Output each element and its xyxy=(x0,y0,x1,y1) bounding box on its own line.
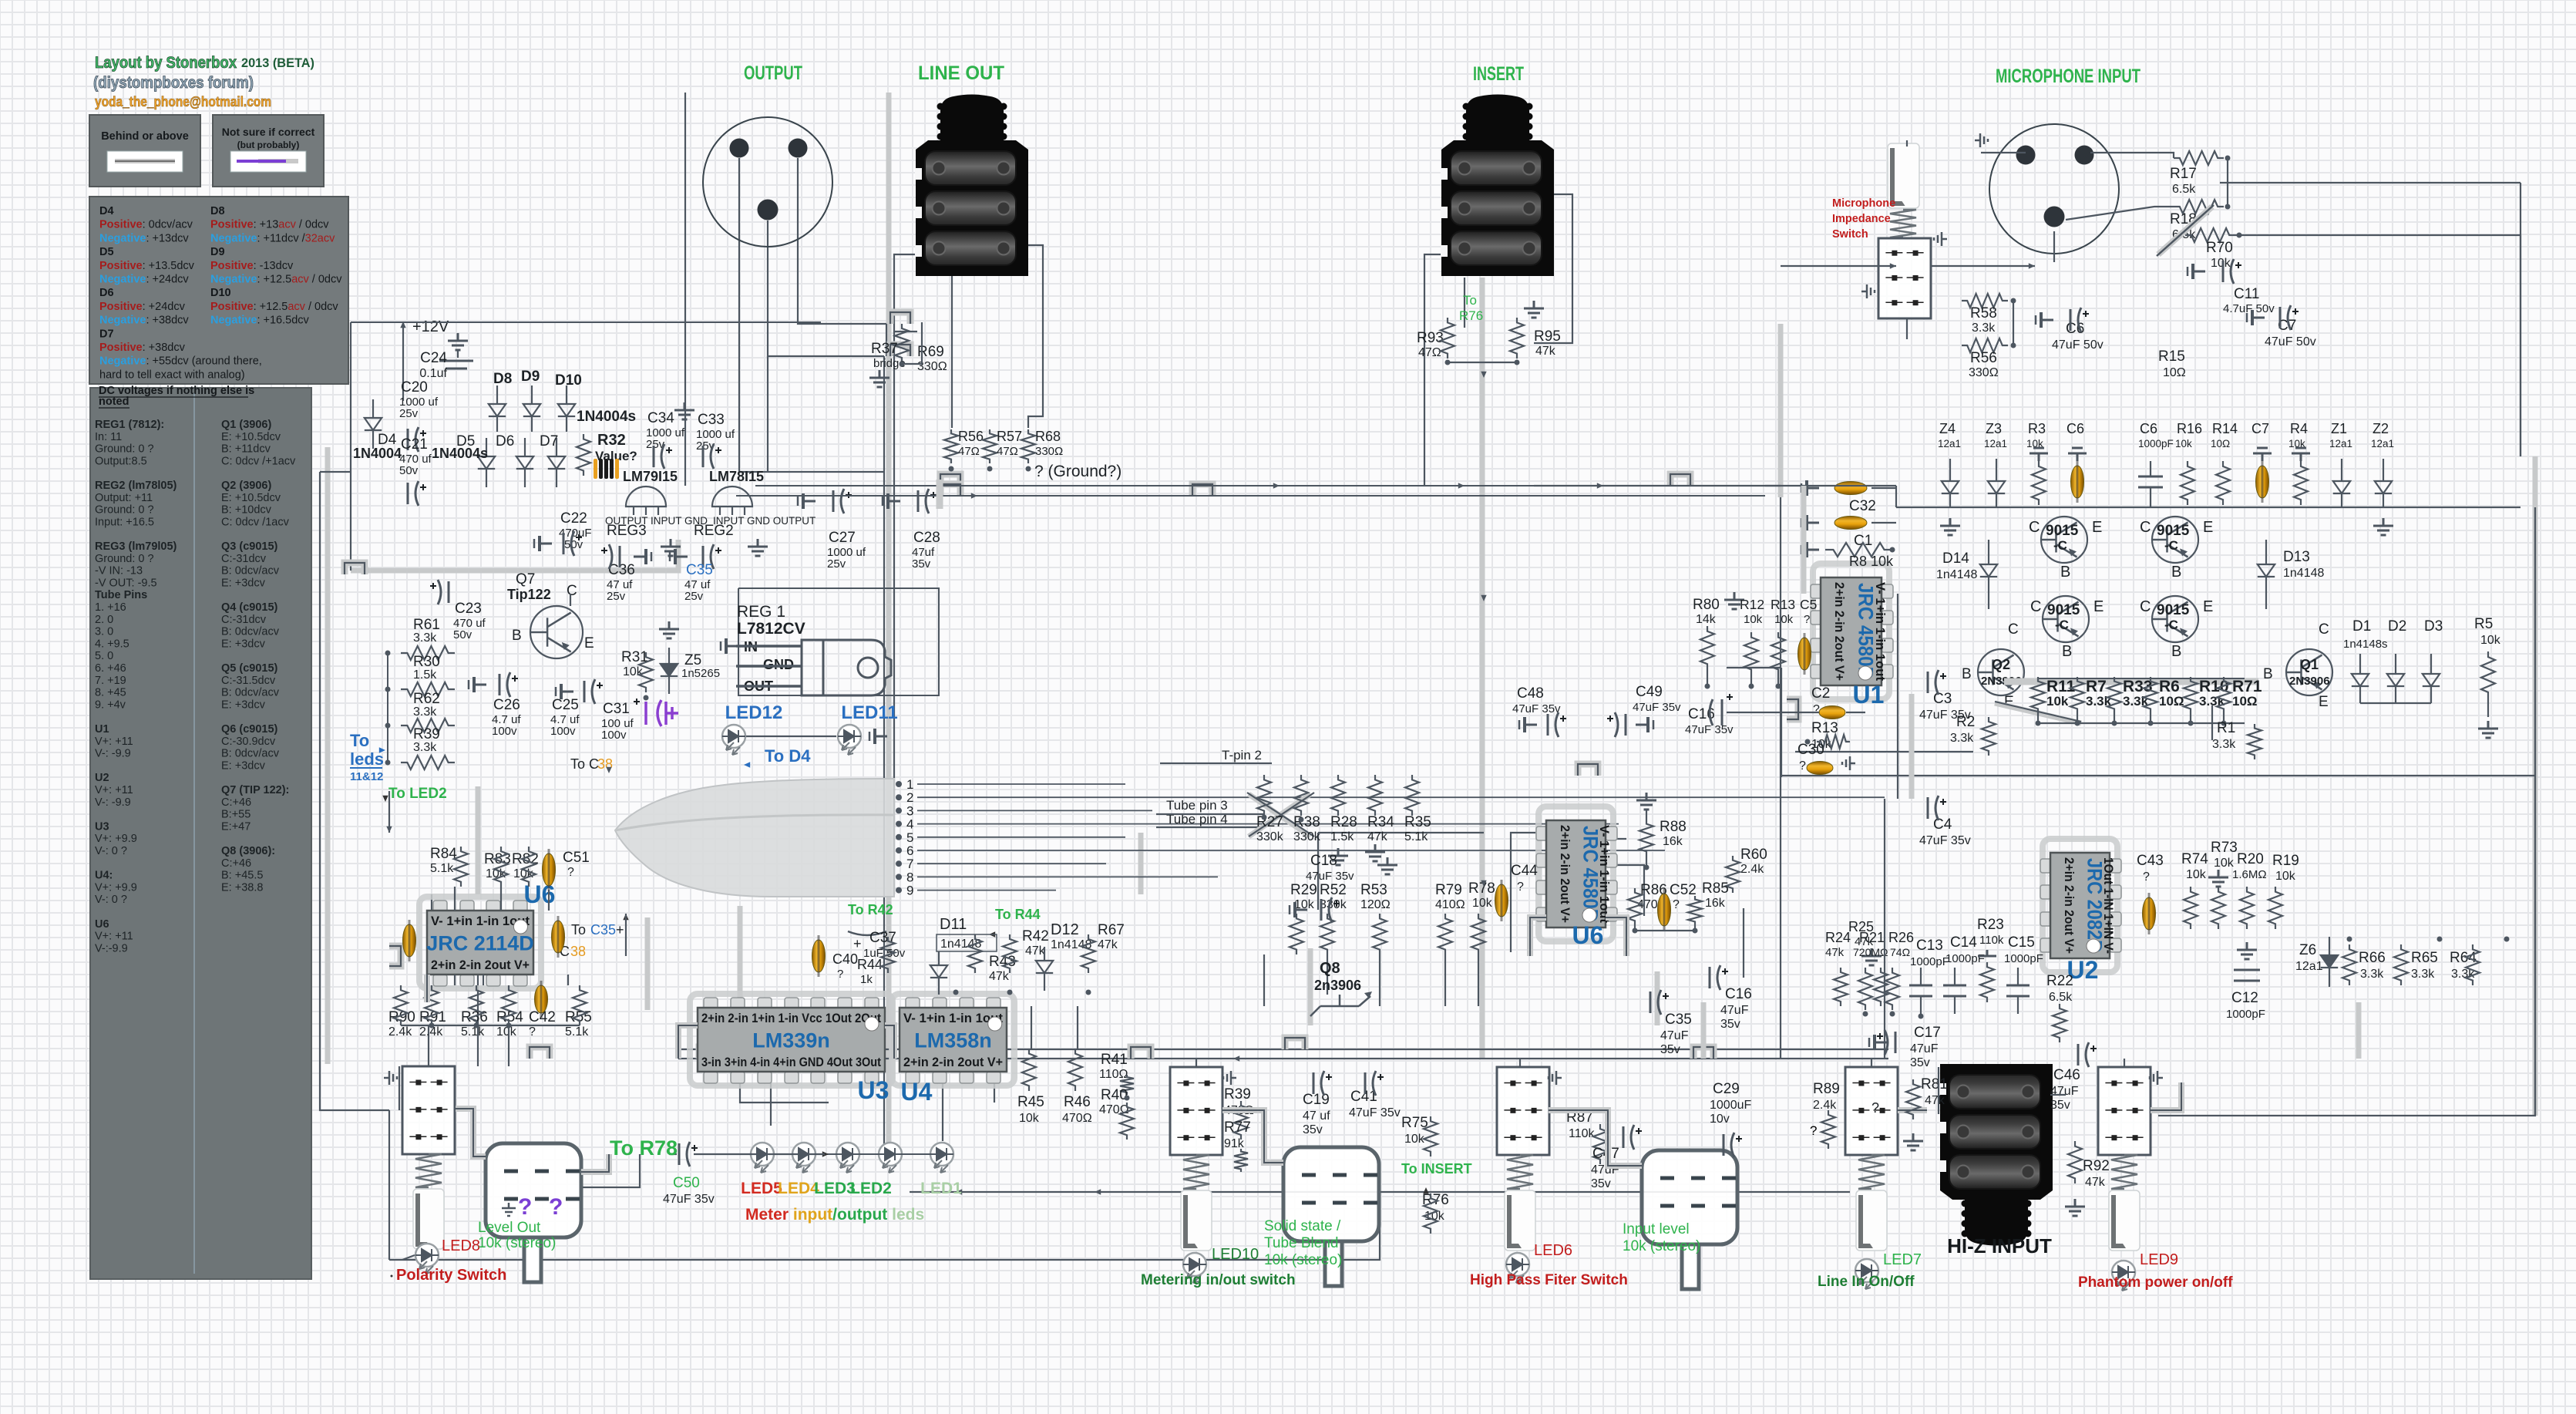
svg-text:R61: R61 xyxy=(413,617,440,633)
svg-text:D7: D7 xyxy=(540,433,558,449)
svg-text:(but probably): (but probably) xyxy=(237,140,300,150)
svg-text:110Ω: 110Ω xyxy=(1099,1068,1128,1081)
svg-text:7. +19: 7. +19 xyxy=(95,675,126,687)
svg-text:R65: R65 xyxy=(2411,950,2438,966)
svg-text:2.4k: 2.4k xyxy=(1813,1099,1837,1112)
svg-text:R35: R35 xyxy=(1404,814,1431,830)
svg-text:R68: R68 xyxy=(1035,429,1061,444)
svg-text:C19: C19 xyxy=(1303,1092,1330,1108)
svg-text:12a1: 12a1 xyxy=(2295,960,2323,973)
svg-text:C: C xyxy=(2008,621,2019,638)
svg-text:R13: R13 xyxy=(1811,720,1838,736)
svg-text:R14: R14 xyxy=(2212,421,2238,436)
svg-text:1: 1 xyxy=(906,777,913,792)
svg-text:LED9: LED9 xyxy=(2140,1251,2178,1268)
svg-text:3: 3 xyxy=(906,803,913,818)
svg-text:LED4: LED4 xyxy=(778,1180,819,1197)
svg-text:To: To xyxy=(350,731,369,750)
svg-text:C: C xyxy=(2030,598,2041,615)
svg-text:U2: U2 xyxy=(95,772,109,784)
svg-text:47k: 47k xyxy=(2085,1176,2106,1189)
svg-text:Ground: 0 ?: Ground: 0 ? xyxy=(95,504,154,517)
svg-text:(diystompboxes forum): (diystompboxes forum) xyxy=(93,73,254,92)
svg-text:REG2: REG2 xyxy=(694,523,734,539)
svg-text:B: B xyxy=(1962,666,1972,682)
svg-text:Z2: Z2 xyxy=(2373,421,2389,436)
svg-text:Negative: +38dcv: Negative: +38dcv xyxy=(99,315,189,327)
svg-text:2+in 2-in 2out V+: 2+in 2-in 2out V+ xyxy=(903,1055,1003,1069)
svg-text:In: 11: In: 11 xyxy=(95,431,122,443)
svg-text:GND: GND xyxy=(763,657,794,672)
svg-text:5.1k: 5.1k xyxy=(565,1025,589,1039)
svg-text:74Ω: 74Ω xyxy=(1890,946,1910,958)
svg-text:E: E xyxy=(2319,694,2329,710)
svg-text:16k: 16k xyxy=(1663,835,1683,848)
svg-text:LED6: LED6 xyxy=(1534,1242,1572,1259)
svg-text:B: B xyxy=(2263,666,2273,682)
svg-text:R64: R64 xyxy=(2450,950,2477,966)
svg-text:?: ? xyxy=(529,1025,536,1039)
svg-text:Switch: Switch xyxy=(1832,228,1868,241)
svg-text:E: E xyxy=(2203,519,2213,536)
svg-text:R22: R22 xyxy=(2046,973,2073,989)
svg-text:2n3906: 2n3906 xyxy=(1314,978,1361,993)
svg-text:C:+46: C:+46 xyxy=(221,857,251,870)
svg-text:D10: D10 xyxy=(210,287,231,299)
svg-text:47k: 47k xyxy=(1367,830,1388,843)
svg-text:Metering in/out switch: Metering in/out switch xyxy=(1141,1272,1296,1288)
svg-text:C40: C40 xyxy=(832,951,858,967)
svg-text:U1: U1 xyxy=(95,723,109,736)
svg-text:D14: D14 xyxy=(1942,550,1969,567)
svg-text:D5: D5 xyxy=(99,246,114,258)
svg-text:9015: 9015 xyxy=(2047,602,2080,618)
svg-text:50v: 50v xyxy=(453,628,472,641)
svg-text:10k: 10k xyxy=(2275,870,2296,883)
svg-text:B: B xyxy=(2171,564,2181,581)
svg-text:Impedance: Impedance xyxy=(1832,213,1891,225)
svg-text:V+: +11: V+: +11 xyxy=(95,784,133,796)
svg-text:V- 1+in 1-in 1out: V- 1+in 1-in 1out xyxy=(1873,582,1888,681)
svg-text:14k: 14k xyxy=(1696,613,1717,626)
svg-text:B:+55: B:+55 xyxy=(221,809,251,821)
svg-text:Positive: +13acv / 0dcv: Positive: +13acv / 0dcv xyxy=(210,219,329,231)
svg-text:R16: R16 xyxy=(2177,421,2202,436)
svg-text:47uF 35v: 47uF 35v xyxy=(1685,723,1734,736)
svg-text:10k: 10k xyxy=(2214,857,2235,870)
svg-text:C21: C21 xyxy=(401,436,428,453)
svg-text:12a1: 12a1 xyxy=(2329,438,2352,449)
svg-text:47uF 35v: 47uF 35v xyxy=(1306,870,1354,883)
svg-text:E: +3dcv: E: +3dcv xyxy=(221,638,266,650)
svg-text:Q7: Q7 xyxy=(516,571,535,587)
svg-text:3.3k: 3.3k xyxy=(413,705,437,719)
svg-text:?: ? xyxy=(1810,1123,1817,1138)
svg-text:1k: 1k xyxy=(860,973,873,986)
svg-text:10Ω: 10Ω xyxy=(2232,694,2258,709)
svg-text:Input level: Input level xyxy=(1623,1221,1690,1237)
svg-text:LINE OUT: LINE OUT xyxy=(918,62,1004,84)
svg-text:C34: C34 xyxy=(647,410,674,426)
svg-text:1000pF: 1000pF xyxy=(2138,438,2174,449)
svg-text:E: +38.8: E: +38.8 xyxy=(221,881,263,894)
svg-text:C17: C17 xyxy=(1914,1025,1941,1041)
svg-text:Solid state /: Solid state / xyxy=(1264,1218,1341,1234)
svg-text:C52: C52 xyxy=(1670,882,1697,898)
svg-text:E: E xyxy=(2093,598,2104,615)
svg-text:Z3: Z3 xyxy=(1986,421,2002,436)
svg-text:R41: R41 xyxy=(1101,1052,1128,1068)
svg-text:?: ? xyxy=(1804,613,1810,626)
svg-text:Z5: Z5 xyxy=(684,652,701,668)
svg-text:U4:: U4: xyxy=(95,870,113,882)
svg-text:LED12: LED12 xyxy=(725,702,783,723)
svg-text:Behind or above: Behind or above xyxy=(101,130,189,143)
svg-text:C: 0dcv /1acv: C: 0dcv /1acv xyxy=(221,516,290,528)
svg-text:JRC 2114D: JRC 2114D xyxy=(426,932,534,955)
svg-text:C6: C6 xyxy=(2067,421,2084,436)
svg-text:R56: R56 xyxy=(1970,350,1997,366)
svg-text:?: ? xyxy=(1813,703,1820,716)
svg-text:B: 0dcv/acv: B: 0dcv/acv xyxy=(221,748,280,760)
svg-text:-C: -C xyxy=(2053,538,2067,553)
svg-text:B: 0dcv/acv: B: 0dcv/acv xyxy=(221,565,280,577)
svg-text:6.5k: 6.5k xyxy=(2172,183,2196,196)
svg-text:C11: C11 xyxy=(2234,286,2259,302)
svg-text:38: 38 xyxy=(570,944,586,959)
svg-text:C3: C3 xyxy=(1933,691,1952,707)
svg-text:C18: C18 xyxy=(1310,853,1337,869)
svg-text:R20: R20 xyxy=(2237,851,2264,867)
svg-text:47Ω: 47Ω xyxy=(1418,346,1441,359)
svg-text:E: E xyxy=(2092,519,2102,536)
svg-text:12a1: 12a1 xyxy=(1984,438,2007,449)
svg-text:100v: 100v xyxy=(550,725,576,738)
svg-text:U1: U1 xyxy=(1853,681,1885,709)
svg-text:3.3k: 3.3k xyxy=(1972,322,1996,335)
svg-text:D2: D2 xyxy=(2388,618,2406,635)
svg-text:720MΩ: 720MΩ xyxy=(1853,946,1888,958)
svg-text:1000pF: 1000pF xyxy=(1945,952,1985,965)
svg-text:-V OUT: -9.5: -V OUT: -9.5 xyxy=(95,577,157,589)
svg-text:E: E xyxy=(2203,598,2213,615)
svg-text:R53: R53 xyxy=(1360,882,1387,898)
svg-text:4. +9.5: 4. +9.5 xyxy=(95,638,129,650)
svg-text:LED11: LED11 xyxy=(841,702,897,723)
svg-text:9015: 9015 xyxy=(2157,602,2190,618)
svg-text:L7812CV: L7812CV xyxy=(737,620,805,638)
svg-text:V-: 0 ?: V-: 0 ? xyxy=(95,894,127,906)
svg-text:35v: 35v xyxy=(1303,1123,1323,1136)
svg-text:1000uF: 1000uF xyxy=(1710,1099,1751,1112)
svg-text:R21: R21 xyxy=(1859,930,1885,945)
svg-text:C:-31.5dcv: C:-31.5dcv xyxy=(221,675,276,687)
svg-text:R15: R15 xyxy=(2158,348,2185,365)
svg-text:100v: 100v xyxy=(492,725,517,738)
svg-text:R1: R1 xyxy=(2217,720,2235,736)
svg-text:8. +45: 8. +45 xyxy=(95,687,126,699)
svg-text:9. +4v: 9. +4v xyxy=(95,699,126,711)
svg-text:E: +10.5dcv: E: +10.5dcv xyxy=(221,431,281,443)
svg-text:47uF 35v: 47uF 35v xyxy=(1512,702,1561,715)
svg-text:10k: 10k xyxy=(623,665,644,678)
svg-text:330Ω: 330Ω xyxy=(1969,366,1999,379)
svg-text:D4: D4 xyxy=(99,205,114,217)
svg-text:R13: R13 xyxy=(1771,597,1795,612)
svg-text:3.3k: 3.3k xyxy=(2360,968,2384,981)
svg-text:35v: 35v xyxy=(912,557,931,571)
svg-text:Polarity Switch: Polarity Switch xyxy=(396,1267,506,1284)
svg-text:C12: C12 xyxy=(2231,990,2258,1006)
svg-text:R52: R52 xyxy=(1320,882,1347,898)
svg-text:47k: 47k xyxy=(1535,345,1556,358)
svg-text:2+in 2-in 2out V+: 2+in 2-in 2out V+ xyxy=(1832,582,1847,681)
svg-text:?: ? xyxy=(837,968,843,981)
svg-text:C: C xyxy=(2140,519,2151,536)
svg-text:R95: R95 xyxy=(1534,328,1561,345)
svg-text:Tube Pins: Tube Pins xyxy=(95,589,147,601)
svg-text:To R42: To R42 xyxy=(848,902,893,917)
svg-text:MICROPHONE INPUT: MICROPHONE INPUT xyxy=(1996,66,2141,87)
svg-text:R89: R89 xyxy=(1813,1081,1840,1097)
svg-text:V-: -9.9: V-: -9.9 xyxy=(95,796,131,809)
svg-text:To: To xyxy=(1463,293,1477,308)
svg-text:R58: R58 xyxy=(1970,305,1997,322)
svg-text:R67: R67 xyxy=(1098,922,1125,938)
svg-text:Negative: +55dcv (around there: Negative: +55dcv (around there, xyxy=(99,355,262,368)
svg-text:5. 0: 5. 0 xyxy=(95,650,113,662)
svg-text:2+in 2-in 2out V+: 2+in 2-in 2out V+ xyxy=(1558,825,1572,923)
svg-text:R27: R27 xyxy=(1256,814,1283,830)
svg-text:B: B xyxy=(512,628,522,644)
svg-text:10k: 10k xyxy=(2211,257,2231,270)
svg-text:B: 0dcv/acv: B: 0dcv/acv xyxy=(221,626,280,638)
svg-text:C:-30.9dcv: C:-30.9dcv xyxy=(221,736,276,748)
svg-text:D6: D6 xyxy=(99,287,114,299)
svg-text:R8 10k: R8 10k xyxy=(1849,554,1894,569)
svg-text:E:+47: E:+47 xyxy=(221,820,251,833)
svg-text:C50: C50 xyxy=(673,1175,700,1191)
svg-text:C28: C28 xyxy=(913,530,940,546)
svg-text:E: +3dcv: E: +3dcv xyxy=(221,577,266,589)
svg-text:C49: C49 xyxy=(1636,684,1663,700)
svg-text:hard to tell exact with analog: hard to tell exact with analog) xyxy=(99,369,245,381)
svg-text:Negative: +12.5acv / 0dcv: Negative: +12.5acv / 0dcv xyxy=(210,274,342,286)
svg-text:47uF: 47uF xyxy=(1910,1042,1939,1055)
svg-text:Not sure if correct: Not sure if correct xyxy=(222,126,315,138)
svg-text:R3: R3 xyxy=(2028,421,2046,436)
svg-text:12a1: 12a1 xyxy=(2371,438,2394,449)
svg-text:1n4148: 1n4148 xyxy=(1936,568,1977,581)
svg-text:+12V: +12V xyxy=(412,318,449,335)
svg-text:B: +10dcv: B: +10dcv xyxy=(221,504,272,517)
svg-text:Tip122: Tip122 xyxy=(507,587,551,602)
svg-text:10k: 10k xyxy=(2175,438,2192,449)
svg-text:C27: C27 xyxy=(829,530,856,546)
svg-text:10k (stereo): 10k (stereo) xyxy=(478,1235,556,1251)
svg-text:LED3: LED3 xyxy=(814,1180,856,1197)
svg-text:120Ω: 120Ω xyxy=(1360,898,1391,911)
svg-text:-C: -C xyxy=(2164,538,2178,553)
svg-text:B: B xyxy=(2171,643,2181,660)
svg-text:47uF 50v: 47uF 50v xyxy=(2052,338,2104,352)
svg-text:10k: 10k xyxy=(2480,634,2501,647)
svg-text:3. 0: 3. 0 xyxy=(95,626,113,638)
svg-text:Z6: Z6 xyxy=(2299,942,2316,958)
svg-text:R76: R76 xyxy=(1459,308,1483,323)
svg-text:U6: U6 xyxy=(1572,921,1604,949)
svg-text:T-pin 2: T-pin 2 xyxy=(1222,748,1262,763)
svg-text:?: ? xyxy=(1871,1100,1879,1116)
svg-text:R29: R29 xyxy=(1290,882,1317,898)
svg-text:C16: C16 xyxy=(1725,986,1752,1002)
svg-text:47k: 47k xyxy=(989,970,1010,983)
svg-text:R5: R5 xyxy=(2474,616,2493,632)
svg-text:47uF: 47uF xyxy=(1660,1029,1689,1042)
svg-text:47uF 35v: 47uF 35v xyxy=(1633,701,1681,714)
svg-text:R42: R42 xyxy=(1022,928,1049,944)
svg-text:R28: R28 xyxy=(1330,814,1357,830)
svg-text:?: ? xyxy=(1517,880,1524,894)
svg-text:R7: R7 xyxy=(2086,678,2107,695)
svg-text:Line In On/Off: Line In On/Off xyxy=(1818,1274,1915,1290)
svg-text:B: 0dcv/acv: B: 0dcv/acv xyxy=(221,687,280,699)
svg-text:Negative: +24dcv: Negative: +24dcv xyxy=(99,274,189,286)
svg-text:LED7: LED7 xyxy=(1883,1251,1922,1268)
svg-text:C51: C51 xyxy=(563,850,590,866)
svg-text:Input: +16.5: Input: +16.5 xyxy=(95,516,154,528)
svg-text:U3: U3 xyxy=(858,1076,889,1104)
svg-text:R11: R11 xyxy=(2046,678,2076,695)
svg-text:R17: R17 xyxy=(2170,166,2197,182)
svg-text:REG1 (7812):: REG1 (7812): xyxy=(95,419,164,431)
svg-text:?: ? xyxy=(567,866,574,879)
svg-text:410Ω: 410Ω xyxy=(1435,898,1465,911)
svg-text:16k: 16k xyxy=(1705,897,1726,910)
svg-text:D11: D11 xyxy=(940,916,967,933)
svg-text:50v: 50v xyxy=(399,464,419,477)
svg-text:Q4 (c9015): Q4 (c9015) xyxy=(221,601,278,614)
svg-text:25v: 25v xyxy=(399,407,419,420)
svg-text:470Ω: 470Ω xyxy=(1099,1103,1129,1116)
svg-text:1. +16: 1. +16 xyxy=(95,601,126,614)
svg-text:10k (stereo): 10k (stereo) xyxy=(1623,1238,1700,1254)
svg-text:47Ω: 47Ω xyxy=(997,445,1018,458)
svg-text:2+in 2-in 2out V+: 2+in 2-in 2out V+ xyxy=(431,958,530,972)
svg-text:C35: C35 xyxy=(1665,1012,1692,1028)
svg-text:R6: R6 xyxy=(2159,678,2180,695)
svg-text:E: +3dcv: E: +3dcv xyxy=(221,699,266,711)
svg-text:C25: C25 xyxy=(552,697,579,713)
svg-text:D8: D8 xyxy=(210,205,225,217)
svg-text:3-in 3+in 4-in 4+in GND 4Out 3: 3-in 3+in 4-in 4+in GND 4Out 3Out xyxy=(701,1055,881,1069)
svg-text:47uF 35v: 47uF 35v xyxy=(1349,1106,1401,1119)
svg-text:50v: 50v xyxy=(564,538,583,551)
svg-text:INSERT: INSERT xyxy=(1473,63,1524,85)
svg-text:C20: C20 xyxy=(401,379,428,396)
svg-text:1.6MΩ: 1.6MΩ xyxy=(2232,868,2267,881)
svg-text:C4: C4 xyxy=(1933,816,1952,833)
svg-text:C44: C44 xyxy=(1511,863,1538,879)
svg-text:C26: C26 xyxy=(493,697,520,713)
svg-text:9: 9 xyxy=(906,884,913,898)
svg-text:2.4k: 2.4k xyxy=(1740,863,1764,876)
svg-text:R81: R81 xyxy=(1921,1076,1948,1092)
svg-text:Q8: Q8 xyxy=(1320,960,1340,977)
svg-text:C29: C29 xyxy=(1713,1081,1740,1097)
svg-text:C48: C48 xyxy=(1517,685,1544,702)
svg-text:Q3 (c9015): Q3 (c9015) xyxy=(221,540,278,553)
svg-text:10k: 10k xyxy=(1472,897,1493,910)
svg-text:LM78I15: LM78I15 xyxy=(709,469,764,484)
svg-text:? (Ground?): ? (Ground?) xyxy=(1034,463,1122,480)
svg-text:R71: R71 xyxy=(2232,678,2262,695)
svg-text:3.3k: 3.3k xyxy=(2212,738,2236,751)
svg-text:Positive: +13.5dcv: Positive: +13.5dcv xyxy=(99,260,195,272)
svg-text:Q1: Q1 xyxy=(2300,657,2319,672)
svg-text:4: 4 xyxy=(906,817,913,832)
svg-text:V+: +11: V+: +11 xyxy=(95,736,133,748)
svg-text:47Ω: 47Ω xyxy=(958,445,980,458)
svg-text:V- 1+in 1-in 1out: V- 1+in 1-in 1out xyxy=(1597,825,1612,923)
svg-text:10k: 10k xyxy=(1744,613,1763,626)
svg-text:2+in 2-in 2out V+: 2+in 2-in 2out V+ xyxy=(2062,857,2077,954)
svg-text:110k: 110k xyxy=(1569,1127,1596,1140)
svg-text:7: 7 xyxy=(906,857,913,871)
svg-text:Positive: 0dcv/acv: Positive: 0dcv/acv xyxy=(99,219,193,231)
svg-text:5.1k: 5.1k xyxy=(430,862,454,875)
svg-text:LED2: LED2 xyxy=(850,1180,892,1197)
svg-text:R45: R45 xyxy=(1017,1094,1044,1110)
svg-text:V+: +9.9: V+: +9.9 xyxy=(95,881,137,894)
svg-text:10k: 10k xyxy=(1019,1112,1040,1125)
svg-text:U4: U4 xyxy=(901,1078,933,1106)
svg-text:V+: +11: V+: +11 xyxy=(95,931,133,943)
svg-text:35v: 35v xyxy=(2050,1099,2070,1112)
svg-text:1000pF: 1000pF xyxy=(2004,952,2043,965)
svg-text:Q7 (TIP 122):: Q7 (TIP 122): xyxy=(221,784,289,796)
svg-text:C: C xyxy=(2319,621,2329,638)
svg-text:1n4148s: 1n4148s xyxy=(2343,638,2388,651)
svg-text:D3: D3 xyxy=(2424,618,2443,635)
svg-text:8: 8 xyxy=(906,870,913,884)
svg-text:1n5265: 1n5265 xyxy=(681,667,720,680)
svg-text:330k: 330k xyxy=(1293,830,1321,843)
svg-text:C:+46: C:+46 xyxy=(221,796,251,809)
svg-text:Ground: 0 ?: Ground: 0 ? xyxy=(95,443,154,456)
svg-text:35v: 35v xyxy=(1591,1177,1611,1190)
svg-text:R92: R92 xyxy=(2083,1158,2110,1174)
svg-text:E: +10.5dcv: E: +10.5dcv xyxy=(221,492,281,504)
svg-text:2. 0: 2. 0 xyxy=(95,614,113,626)
svg-text:D10: D10 xyxy=(555,372,582,389)
svg-text:-C: -C xyxy=(2164,618,2178,632)
svg-text:3.3k: 3.3k xyxy=(413,631,437,645)
svg-text:10k: 10k xyxy=(1774,613,1794,626)
svg-text:35v: 35v xyxy=(1720,1018,1740,1031)
svg-text:1.5k: 1.5k xyxy=(413,668,437,682)
svg-text:11&12: 11&12 xyxy=(350,770,383,783)
svg-text:25v: 25v xyxy=(684,590,704,603)
svg-text:10Ω: 10Ω xyxy=(2159,694,2184,709)
svg-text:Q5 (c9015): Q5 (c9015) xyxy=(221,662,278,675)
svg-text:R39: R39 xyxy=(1224,1086,1251,1103)
svg-text:D8: D8 xyxy=(493,371,512,387)
svg-text:REG 1: REG 1 xyxy=(737,603,785,621)
svg-text:2+in 2-in 1+in 1-in Vcc 1Out 2: 2+in 2-in 1+in 1-in Vcc 1Out 2Out xyxy=(701,1012,881,1025)
svg-text:To R44: To R44 xyxy=(995,907,1041,922)
svg-text:3.3k: 3.3k xyxy=(2411,968,2435,981)
